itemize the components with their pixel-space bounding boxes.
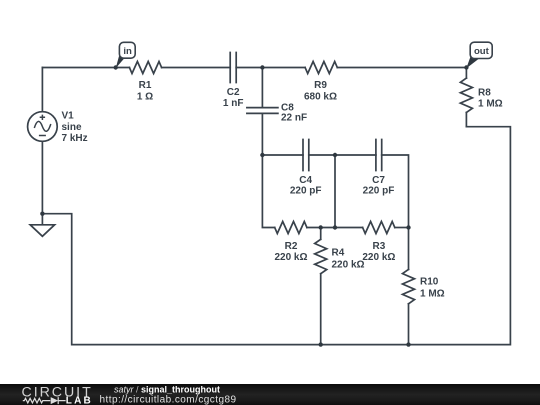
svg-text:satyr / signal_throughout: satyr / signal_throughout: [114, 384, 220, 394]
svg-text:LAB: LAB: [66, 396, 93, 405]
svg-text:680 kΩ: 680 kΩ: [304, 91, 337, 102]
svg-text:220 kΩ: 220 kΩ: [274, 252, 307, 263]
svg-text:R8: R8: [478, 88, 491, 99]
svg-text:220 kΩ: 220 kΩ: [362, 252, 395, 263]
svg-text:R1: R1: [139, 80, 152, 91]
svg-text:1 MΩ: 1 MΩ: [420, 288, 445, 299]
svg-text:220 pF: 220 pF: [290, 185, 322, 196]
svg-text:C2: C2: [227, 87, 240, 98]
svg-text:220 pF: 220 pF: [363, 185, 395, 196]
svg-text:in: in: [123, 46, 132, 57]
svg-text:1 nF: 1 nF: [223, 98, 244, 109]
svg-text:sine: sine: [62, 122, 82, 133]
svg-text:C7: C7: [372, 175, 385, 186]
svg-text:1 Ω: 1 Ω: [137, 91, 153, 102]
svg-text:http://circuitlab.com/cgctg89: http://circuitlab.com/cgctg89: [100, 394, 237, 405]
svg-text:R10: R10: [420, 277, 439, 288]
svg-text:R4: R4: [332, 248, 345, 259]
svg-text:R3: R3: [373, 241, 386, 252]
svg-text:220 kΩ: 220 kΩ: [332, 259, 365, 270]
svg-text:V1: V1: [62, 110, 75, 121]
svg-text:R2: R2: [285, 241, 298, 252]
svg-text:22 nF: 22 nF: [281, 112, 307, 123]
svg-text:R9: R9: [314, 80, 327, 91]
svg-text:out: out: [474, 46, 490, 57]
svg-text:1 MΩ: 1 MΩ: [478, 99, 503, 110]
svg-text:C4: C4: [299, 175, 312, 186]
svg-text:7 kHz: 7 kHz: [62, 133, 88, 144]
